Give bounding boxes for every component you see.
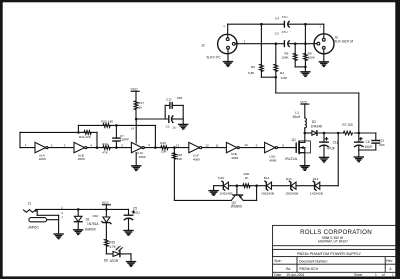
svg-text:4069: 4069 [231,156,238,160]
wire U1F out to U1E in [202,147,227,149]
wire line A (pin1 bus) [228,23,324,25]
svg-text:1N4148: 1N4148 [311,124,322,128]
resistor R18 10K [173,148,184,201]
ground R9 [301,72,310,77]
wire J2 pin1 up to line A [223,24,228,38]
svg-text:1N5242B: 1N5242B [310,191,323,195]
svg-text:LEDR: LEDR [110,259,119,263]
ground D6 [127,262,136,267]
resistor R5 6.8K [248,24,276,77]
svg-text:4069: 4069 [269,159,276,163]
wire R18 to Q2 emitter [174,199,231,201]
svg-text:47U: 47U [282,15,288,19]
node R9 line B cross junction [304,42,307,45]
svg-text:C4: C4 [275,17,279,21]
svg-text:of: of [382,273,385,277]
connector J3 XLR JACK M [314,34,353,54]
wire Q2 collector to zener junction [243,199,256,201]
svg-text:J2: J2 [201,44,205,48]
wire U1A out to U1B in [48,147,74,149]
svg-text:D14: D14 [264,176,270,180]
svg-text:VCC: VCC [102,201,110,205]
svg-text:Document Number:: Document Number: [299,259,328,263]
svg-text:100K: 100K [281,56,289,60]
svg-text:J1: J1 [28,201,32,205]
svg-text:.003: .003 [176,96,182,100]
capacitor C12 .003 [165,96,183,119]
pin 14 U1C vcc pin [131,119,136,143]
node D15-R20 junction [236,184,239,187]
wire feedback U1A input [20,132,84,147]
ground C1 [179,124,188,129]
svg-text:50uH: 50uH [293,115,301,119]
connector J2 XLR F PC [201,34,237,59]
transistor Q2 2N3906 [231,186,244,209]
svg-text:Rev:: Rev: [386,259,393,263]
node C6 junction [358,132,361,135]
svg-text:13: 13 [176,143,180,147]
node Q1 drain junction [304,132,307,135]
svg-text:11: 11 [216,143,219,147]
svg-text:47U: 47U [282,30,288,34]
svg-text:XLR JACK M: XLR JACK M [334,40,353,44]
svg-text:D12: D12 [313,177,319,181]
svg-text:6.8K: 6.8K [248,71,255,75]
resistor R11 22K [79,131,97,139]
wire U1C out [144,147,161,149]
node C7 top junction [115,124,118,127]
wire J1 sleeve to ground [47,215,59,233]
ground Q1 source [300,166,309,171]
svg-text:D15: D15 [218,176,224,180]
svg-text:C11: C11 [333,141,339,145]
svg-text:Bs: Bs [286,267,290,271]
ground C5 [124,231,133,236]
wire output to phantom resistors [276,93,359,133]
node VCC-D10 junction [105,208,108,211]
svg-text:R14: R14 [102,142,108,146]
svg-text:12: 12 [205,143,209,147]
svg-text:ROLLS CORPORATION: ROLLS CORPORATION [300,229,372,236]
title block [273,225,397,277]
svg-text:C3: C3 [275,31,279,35]
node C7 bottom junction [115,146,118,149]
node zener feed junction [337,132,340,135]
node R8 top junction [294,42,297,45]
node R5-R4 junction [275,76,278,79]
wire U1E out to U1D in [239,147,264,149]
svg-text:XLR F PC: XLR F PC [206,56,221,60]
svg-text:R15 18K: R15 18K [101,119,114,123]
diode D2 1N4148 [305,120,322,136]
node U1B output junction [96,146,99,149]
svg-text:R4: R4 [280,71,284,75]
diode D15 zener 1N5242B [214,176,237,196]
ground D15 [209,186,218,196]
svg-text:PB23b PHANTOM POWER SUPPLY: PB23b PHANTOM POWER SUPPLY [297,251,361,256]
inductor L1 50uH [293,111,307,133]
capacitor C5 47U [124,207,140,231]
svg-text:1N400X: 1N400X [84,227,96,231]
inverter U1A 4069 [35,142,48,161]
resistor R9 100K [304,24,316,71]
svg-text:JAPDC: JAPDC [28,226,40,230]
svg-text:10UF: 10UF [365,145,373,149]
capacitor C6 10UF [355,133,373,150]
svg-text:4.7K: 4.7K [109,245,116,249]
wire C1/C12 right to ground [182,105,184,124]
svg-text:10K: 10K [161,149,167,153]
inverter U1C 4069 [131,142,145,159]
node R18 top junction [173,146,176,149]
svg-text:Date:: Date: [274,273,282,277]
svg-text:4069: 4069 [193,158,200,162]
inverter U1B 4069 [74,142,87,161]
svg-text:C13: C13 [378,139,384,143]
wire J1 pin2 to VCC rail [36,208,129,210]
svg-text:D2: D2 [312,120,316,124]
svg-text:Q1: Q1 [292,138,296,142]
svg-text:D1: D1 [86,217,90,221]
wire U1B out up to R11 [96,132,98,147]
capacitor C3 47U [275,30,290,47]
svg-text:C5: C5 [133,207,137,211]
svg-text:4069: 4069 [78,157,85,161]
wire J3 pin1 up to line A [319,24,323,38]
wire R17 node to C1 [136,118,169,120]
node R17 bottom junction [135,118,138,121]
ground J3 [319,49,328,66]
wire U1B out [87,147,103,149]
resistor R8 100K [281,44,305,67]
svg-text:1U: 1U [172,126,176,130]
svg-text:D6: D6 [104,259,108,263]
capacitor C13 .003 [359,133,385,150]
wire J1 pin3 stub [37,211,58,216]
svg-text:R7 100: R7 100 [342,123,353,127]
wire J2 pin3 to line B [235,39,245,43]
node R4 top junction [275,42,278,45]
svg-text:6.8K: 6.8K [281,76,288,80]
svg-text:C6: C6 [365,140,369,144]
svg-text:120PF: 120PF [120,138,129,142]
wire to ground C6 [358,150,360,157]
svg-text:10: 10 [244,143,248,147]
diode D13 zener 1N5242B [285,177,314,196]
svg-text:.003: .003 [378,143,384,147]
inverter U1E 4069 [226,142,239,160]
svg-text:47U: 47U [134,211,141,215]
resistor R16 10K [160,141,189,154]
svg-text:MURRAY, UT 84107: MURRAY, UT 84107 [318,240,348,244]
transistor Q1 IRLZ14L mosfet [285,133,310,165]
resistor R7 100 [342,123,375,135]
capacitor C7 120PF [113,125,129,147]
svg-text:100K: 100K [308,56,316,60]
resistor R17 1K [134,101,144,119]
wire J3 pin2 stub [314,43,317,45]
diode D1 1N400X [74,209,99,231]
svg-text:D10: D10 [93,214,99,218]
node U1C output junction [154,146,157,149]
power VCC (boost) [300,100,309,118]
diode D10 zener 1N751A [93,209,111,239]
connector J1 power jack [24,201,64,229]
svg-text:C12: C12 [166,97,172,101]
ground J2 [224,49,233,66]
wire junction down to Q2 collector [256,186,258,201]
svg-text:C1: C1 [166,125,170,129]
wire tap up to R15 line [77,125,79,132]
ground C11 [320,157,329,162]
inverter U1D 4069 [265,142,278,162]
diode D14 zener 1N5242B [261,176,291,195]
node R5 top junction [260,23,263,26]
diode D12 zener 1N5242B [310,177,338,196]
node J1-D1 junction [77,208,80,211]
svg-text:19-Apr-2004: 19-Apr-2004 [287,273,305,277]
ground U1C pin7 [132,153,141,171]
wire 48V rail [317,132,344,134]
inverter U1F 4069 [189,142,202,161]
svg-text:14: 14 [131,127,135,131]
node R11/R15 tap junction [77,131,80,134]
ground C6 [354,157,363,162]
node R9 line A junction [304,23,307,26]
power VCC (input) [102,201,111,210]
svg-text:47UF: 47UF [327,147,335,151]
svg-text:D13: D13 [286,177,292,181]
svg-text:1N5242B: 1N5242B [261,192,274,196]
ground J1 [54,234,63,239]
svg-text:1N751A: 1N751A [87,222,99,226]
power VCC (oscillator) [131,88,140,101]
capacitor C4 47U [275,15,289,27]
node R20-Q2 junction [255,184,258,187]
svg-text:1N5242B: 1N5242B [220,191,233,195]
svg-text:R11 22K: R11 22K [79,135,92,139]
wire U1D out to Q1 gate [278,147,297,149]
resistor R4 6.8K [274,44,288,93]
wire R15 line down to U1C output [154,125,156,147]
node C11 junction [323,132,326,135]
capacitor C1 1U [166,116,184,130]
svg-text:IRLZ14L: IRLZ14L [285,157,297,161]
svg-text:1N5242B: 1N5242B [285,192,298,196]
svg-text:R5: R5 [251,65,255,69]
LED D6 LEDR [104,246,131,263]
resistor R19 4.7K [105,239,117,254]
svg-text:4069: 4069 [139,155,146,159]
svg-text:10K: 10K [177,157,183,161]
svg-text:4069: 4069 [39,157,46,161]
svg-text:1: 1 [392,273,394,277]
ground D1 [74,230,83,235]
svg-text:Sheet: Sheet [354,273,362,277]
svg-text:47K: 47K [102,151,108,155]
svg-text:PB23b.SCH: PB23b.SCH [299,267,318,271]
wire rail down to zener chain [337,133,339,186]
capacitor C11 47UF [320,133,339,157]
resistor R15 18K [78,119,155,127]
svg-text:Size:: Size: [274,259,281,263]
svg-text:1: 1 [375,273,377,277]
svg-text:2N3906: 2N3906 [231,205,242,209]
node R8-R9 junction [304,66,307,69]
resistor R14 47K [102,142,131,155]
wire line B (pin2 bus) [237,43,314,45]
resistor R20 1K [237,172,266,187]
svg-text:R16: R16 [160,141,166,145]
